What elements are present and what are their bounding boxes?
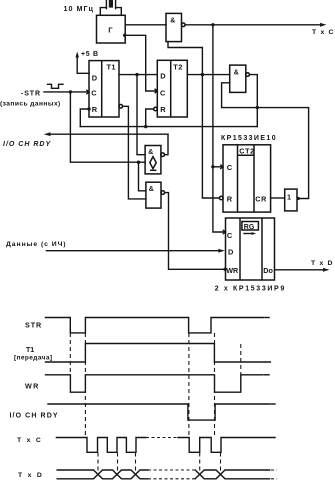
wire crystal left to generator	[100, 8, 106, 16]
wire data line to RG D	[46, 250, 219, 252]
node U2 output net junction	[256, 106, 259, 109]
flip-flop T2	[157, 60, 187, 117]
wire U1 output to TxC	[185, 24, 320, 26]
dashed marker TxD crossing 1	[97, 453, 99, 475]
svg-text:R: R	[92, 105, 98, 114]
svg-text:Т х С: Т х С	[312, 29, 335, 36]
svg-text:D: D	[92, 74, 98, 83]
pin counter R bubble	[219, 196, 223, 200]
svg-text:2 х КР1533ИР9: 2 х КР1533ИР9	[215, 286, 286, 293]
waveform TxC dashed idle	[146, 437, 178, 439]
dashed marker V3	[188, 333, 190, 438]
dashed marker V2	[84, 333, 86, 438]
waveform WR	[46, 375, 264, 392]
wire U4 output to RG WR	[165, 193, 224, 270]
pin T2 C dynamic input tick	[155, 89, 157, 93]
svg-text:CT2: CT2	[239, 147, 255, 156]
svg-text:Т1: Т1	[26, 347, 34, 354]
wire STR net down to U3 input	[70, 92, 145, 162]
node T2 Q junction	[201, 73, 204, 76]
node inverter output	[297, 197, 300, 200]
arrow I/O CH RDY	[44, 132, 51, 136]
svg-text:КР1533ИЕ10: КР1533ИЕ10	[221, 135, 277, 142]
wire U2 feedback to input	[222, 83, 258, 108]
node generator output 2	[123, 34, 126, 37]
svg-text:C: C	[227, 231, 233, 240]
register RG (2x KR1533IR9)	[226, 218, 275, 280]
waveform TxC burst 2	[178, 438, 275, 453]
wire STR net to U4 input	[139, 162, 146, 191]
wire U2 output down	[249, 75, 257, 127]
wire T2 Q down to counter R	[202, 75, 219, 198]
dashed marker V1	[69, 333, 71, 375]
wire U3 output up to RDY line	[165, 134, 169, 155]
svg-text:&: &	[148, 149, 153, 156]
svg-text:C: C	[160, 88, 166, 97]
svg-text:D: D	[228, 248, 234, 257]
svg-text:R: R	[227, 195, 233, 204]
svg-text:D: D	[160, 71, 166, 80]
pulse symbol on STR line	[48, 84, 64, 88]
wire RG Do to TxD	[275, 269, 325, 271]
dashed marker TxD crossing 5	[220, 453, 222, 475]
wire T1 /Q to U4 input	[123, 106, 146, 199]
wire T1 Q down to U3 input	[137, 75, 145, 155]
svg-text:I/O CH RDY: I/O CH RDY	[3, 141, 51, 148]
wire generator output 1 to gate U1	[125, 24, 166, 26]
and-gate U4 (&)	[146, 182, 165, 208]
svg-text:C: C	[227, 163, 233, 172]
wire U2 net to inverter output	[257, 108, 308, 199]
wire clock column from U1 to RG C	[213, 25, 226, 232]
svg-text:T1: T1	[107, 62, 116, 71]
wire T2 Q to U2	[187, 74, 229, 76]
wire T1 Q to T2 D	[119, 74, 157, 76]
pin T1 C dynamic input tick	[87, 90, 89, 94]
node STR junction	[69, 90, 72, 93]
node STR net branch	[137, 161, 140, 164]
dashed marker V5	[240, 344, 242, 375]
svg-text:&: &	[170, 18, 175, 25]
wire +5V to T1 D	[77, 55, 89, 73]
svg-text:WR: WR	[226, 266, 239, 275]
svg-text:10 МГц: 10 МГц	[64, 4, 94, 13]
wire -STR to T1 C	[44, 91, 89, 93]
node T2 R junction on R-net	[144, 125, 147, 128]
generator G (Г)	[97, 15, 126, 43]
inverter U5 (1)	[285, 189, 297, 211]
pin T1 inverted output bubble	[119, 105, 123, 109]
svg-text:I/O CH RDY: I/O CH RDY	[10, 413, 59, 420]
svg-text:STR: STR	[25, 321, 42, 330]
svg-text:CR: CR	[255, 195, 267, 204]
wire crystal right to generator	[116, 8, 122, 16]
svg-text:Т х D: Т х D	[311, 260, 334, 267]
node U1 output junction	[211, 23, 214, 26]
and-gate U3 (&) open collector	[145, 146, 164, 174]
svg-text:Т х D: Т х D	[18, 472, 44, 479]
node T1 Q junction	[135, 73, 138, 76]
power +5V arrow	[75, 52, 79, 58]
crystal ZQ1	[106, 0, 115, 9]
waveform TxD dashed bus	[148, 469, 195, 471]
waveform TxD bus right	[195, 470, 269, 479]
wire U1 input 2 from T2 Q	[168, 42, 202, 75]
svg-text:(запись данных): (запись данных)	[0, 101, 61, 108]
svg-text:Do: Do	[263, 266, 273, 275]
svg-text:R: R	[160, 105, 166, 114]
wire I/O CH RDY line	[48, 133, 168, 135]
svg-text:Данные (с ИЧ): Данные (с ИЧ)	[6, 241, 67, 248]
svg-text:-STR: -STR	[21, 90, 41, 97]
svg-text:&: &	[149, 186, 154, 193]
arrow TxD	[323, 268, 330, 272]
pin RG C dynamic tick	[223, 230, 225, 233]
waveform TxD bus	[57, 470, 148, 479]
node RG WR input	[223, 268, 226, 271]
waveform I/O CH RDY	[48, 404, 270, 420]
svg-text:T2: T2	[173, 62, 182, 71]
wire T2 R to R-net	[146, 109, 154, 127]
node clock column at counter C	[211, 165, 214, 168]
svg-text:+5 В: +5 В	[81, 51, 99, 58]
svg-text:C: C	[91, 88, 97, 97]
dashed marker TxD crossing 4	[199, 453, 201, 475]
node T1 R input	[87, 107, 90, 110]
svg-text:RG: RG	[244, 224, 255, 231]
arrow data into D	[218, 249, 225, 253]
svg-text:&: &	[234, 69, 239, 76]
and-gate U2 (&) right	[230, 65, 250, 92]
dashed marker TxD crossing 3	[135, 453, 137, 475]
svg-text:[передача]: [передача]	[14, 355, 52, 362]
waveform STR	[46, 318, 265, 333]
svg-text:1: 1	[287, 193, 291, 202]
wire generator output 2 to T2 C	[125, 35, 157, 91]
wire counter CR to inverter	[271, 197, 285, 199]
wire clock column to counter C	[213, 166, 223, 168]
waveform T1	[46, 344, 271, 363]
counter CT2 (KR1533IE10)	[223, 145, 271, 212]
wire R-net bottom line	[80, 126, 257, 128]
pin T2 R bubble	[154, 107, 158, 111]
svg-text:Г: Г	[108, 26, 113, 35]
arrow TxC	[320, 23, 327, 27]
dashed marker V4	[214, 333, 216, 438]
svg-text:WR: WR	[25, 382, 40, 391]
wire T1 R loop	[80, 109, 89, 127]
flip-flop T1	[89, 61, 119, 117]
and-gate U1 (&) top	[166, 13, 185, 41]
dashed marker TxD crossing 2	[117, 453, 119, 475]
pin counter C dynamic tick	[221, 165, 223, 168]
waveform TxC burst 1	[56, 438, 146, 453]
svg-text:Т х С: Т х С	[17, 437, 43, 444]
